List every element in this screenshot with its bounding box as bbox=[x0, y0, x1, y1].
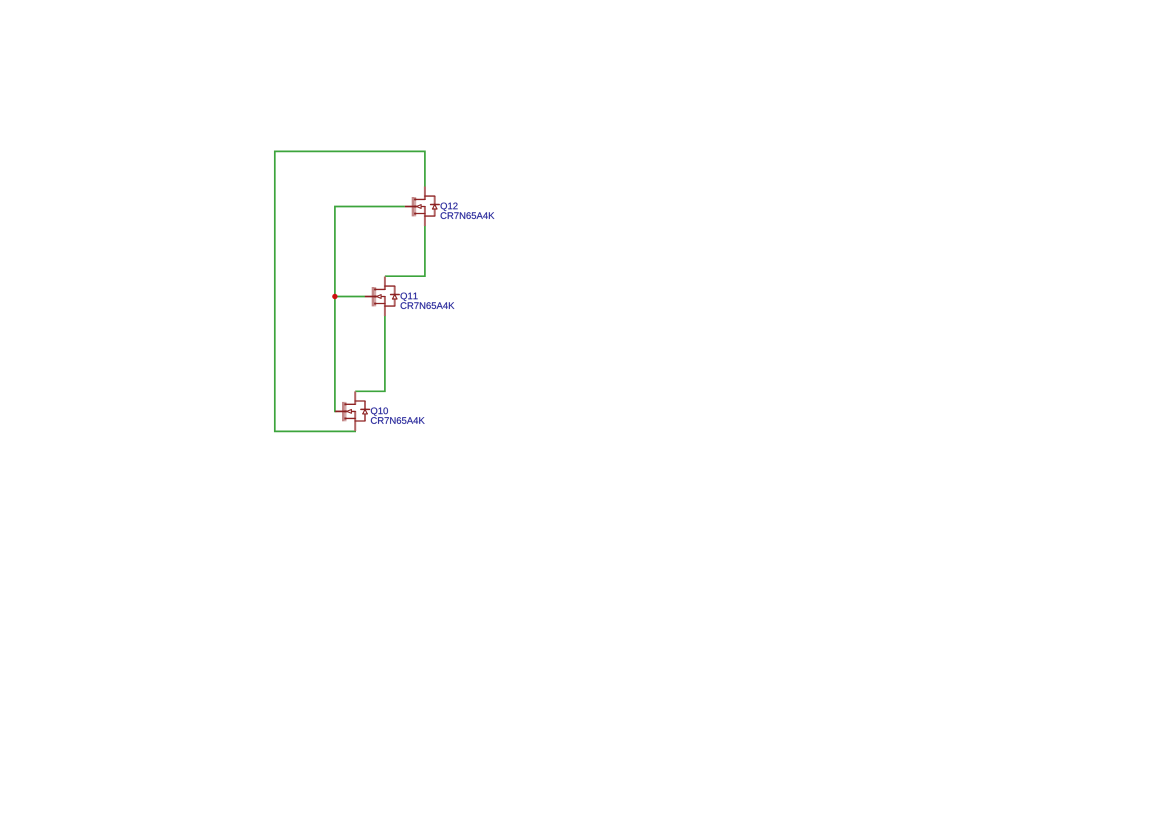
Q11 body diode bbox=[391, 294, 400, 296]
Q10 source arrow bbox=[347, 410, 352, 414]
Q10 body stubs and drain/bulk links bbox=[345, 401, 365, 421]
Q12 reference designator bbox=[441, 203, 458, 211]
Q10 drain pin (thick axis, top) bbox=[354, 391, 356, 404]
transistor Q12 (CR7N65A4K) bbox=[405, 187, 494, 227]
Q12 bulk rail (right side of body, thick) bbox=[434, 196, 436, 216]
Q12 source pin (thick axis, bottom) bbox=[424, 206, 426, 226]
Q12 source arrow bbox=[416, 205, 421, 209]
Q12 channel segments bbox=[414, 198, 416, 200]
wire: outer loop Q10 source - bottom - left vertical - top - Q12 drain bbox=[275, 151, 425, 431]
Q11 bulk rail (right side of body, thick) bbox=[394, 286, 396, 306]
Q11 channel segments bbox=[374, 288, 376, 290]
wire: Q12 source down into Q11 drain bbox=[385, 226, 425, 277]
transistor Q11 (CR7N65A4K) bbox=[365, 277, 454, 317]
Q11 source pin (thick axis, bottom) bbox=[384, 296, 386, 316]
transistor Q10 (CR7N65A4K) bbox=[335, 391, 424, 431]
wire: Q11 gate horizontal bbox=[334, 296, 365, 298]
Q12 gate bar bbox=[412, 197, 415, 216]
Q10 gate pin bbox=[335, 410, 347, 412]
Q11 body stubs and drain/bulk links bbox=[375, 286, 395, 306]
Q10 reference designator bbox=[371, 407, 388, 415]
Q12 gate pin bbox=[405, 206, 417, 208]
junction: gate bus node dot bbox=[332, 294, 337, 299]
Q10 bulk rail (right side of body, thick) bbox=[364, 401, 366, 421]
Q12 body stubs and drain/bulk links bbox=[415, 196, 435, 216]
wire: Q11 source down into Q10 drain bbox=[355, 316, 385, 392]
wire: gate bus (Q12 gate horizontal, bus vertical, Q10 gate corner) bbox=[335, 207, 405, 412]
Q10 source pin (thick axis, bottom) bbox=[354, 411, 356, 431]
Q12 drain pin (thick axis, top) bbox=[424, 187, 426, 200]
Q11 gate bar bbox=[372, 287, 375, 306]
Q11 source arrow bbox=[376, 295, 381, 299]
Q11 value bbox=[401, 302, 455, 309]
Q11 gate pin bbox=[365, 296, 377, 298]
Q10 gate bar bbox=[342, 402, 345, 421]
Q10 body diode bbox=[361, 408, 370, 410]
Q12 body diode bbox=[431, 204, 440, 206]
Q11 reference designator bbox=[401, 293, 418, 301]
Q10 value bbox=[371, 417, 425, 424]
Q12 value bbox=[441, 212, 495, 219]
Q10 channel segments bbox=[345, 403, 347, 405]
Q11 drain pin (thick axis, top) bbox=[384, 277, 386, 290]
